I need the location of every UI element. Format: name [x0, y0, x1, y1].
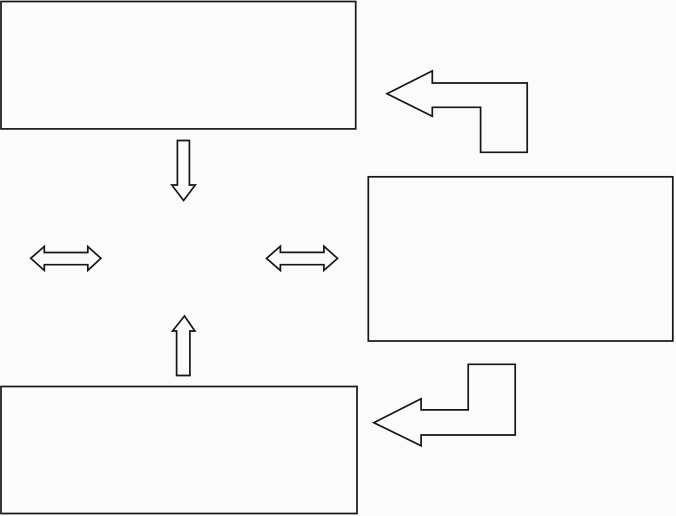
arrow down (top-left box to center) [172, 141, 196, 201]
bent arrow top (right to top-left box) [387, 71, 527, 152]
bent arrow bottom (right to bottom-left box) [374, 364, 515, 446]
box bottom-left [1, 387, 357, 514]
box top-left [1, 2, 356, 129]
double arrow middle [267, 246, 338, 270]
arrow up (bottom-left box to center) [173, 316, 195, 376]
double arrow left [31, 247, 101, 271]
box right [368, 177, 673, 341]
